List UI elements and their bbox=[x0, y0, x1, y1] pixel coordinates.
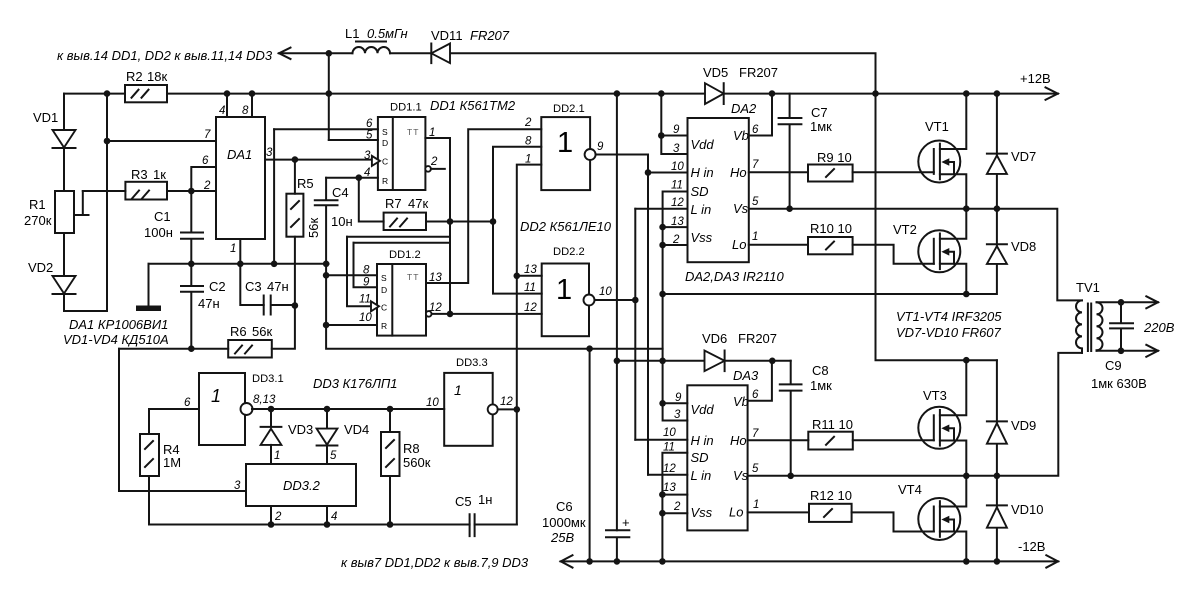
svg-text:к выв.14 DD1, DD2 к выв.11,14: к выв.14 DD1, DD2 к выв.11,14 DD3 bbox=[57, 48, 273, 63]
svg-text:VT1-VT4 IRF3205: VT1-VT4 IRF3205 bbox=[896, 309, 1002, 324]
svg-text:7: 7 bbox=[204, 129, 211, 141]
svg-text:C5: C5 bbox=[455, 494, 472, 509]
svg-text:DA2,DA3 IR2110: DA2,DA3 IR2110 bbox=[685, 269, 785, 284]
svg-text:C7: C7 bbox=[811, 105, 828, 120]
svg-text:12: 12 bbox=[671, 197, 684, 209]
svg-text:11: 11 bbox=[663, 442, 675, 454]
svg-text:9: 9 bbox=[597, 141, 604, 153]
svg-text:DD1.1: DD1.1 bbox=[390, 102, 422, 114]
svg-text:C6: C6 bbox=[556, 499, 573, 514]
svg-text:6: 6 bbox=[752, 389, 759, 401]
svg-text:3: 3 bbox=[364, 150, 371, 162]
svg-text:1000мк: 1000мк bbox=[542, 515, 586, 530]
svg-text:1: 1 bbox=[525, 154, 531, 166]
svg-text:D: D bbox=[381, 285, 387, 295]
svg-text:C2: C2 bbox=[209, 279, 226, 294]
svg-text:1: 1 bbox=[752, 231, 758, 243]
svg-text:DA2: DA2 bbox=[731, 101, 757, 116]
svg-text:к выв7 DD1,DD2 к выв.7,9 DD3: к выв7 DD1,DD2 к выв.7,9 DD3 bbox=[341, 555, 529, 570]
svg-text:1: 1 bbox=[454, 382, 462, 398]
svg-text:R9 10: R9 10 bbox=[817, 150, 852, 165]
svg-text:56к: 56к bbox=[252, 324, 272, 339]
svg-text:560к: 560к bbox=[403, 455, 431, 470]
svg-text:SD: SD bbox=[691, 450, 709, 465]
svg-text:+12В: +12В bbox=[1020, 71, 1051, 86]
svg-text:R7: R7 bbox=[385, 196, 402, 211]
svg-text:6: 6 bbox=[202, 155, 209, 167]
svg-text:R11 10: R11 10 bbox=[812, 417, 853, 432]
svg-text:12: 12 bbox=[500, 396, 513, 408]
svg-text:DD2.1: DD2.1 bbox=[553, 103, 585, 115]
svg-text:D: D bbox=[382, 138, 388, 148]
svg-text:5: 5 bbox=[752, 196, 759, 208]
svg-text:+: + bbox=[622, 515, 630, 530]
svg-text:1: 1 bbox=[274, 450, 280, 462]
svg-text:5: 5 bbox=[330, 450, 337, 462]
svg-text:L in: L in bbox=[691, 468, 712, 483]
svg-text:R10 10: R10 10 bbox=[810, 221, 852, 236]
svg-text:DD2.2: DD2.2 bbox=[553, 246, 585, 258]
svg-text:10: 10 bbox=[599, 286, 612, 298]
svg-text:8: 8 bbox=[242, 105, 249, 117]
svg-text:VD2: VD2 bbox=[28, 260, 53, 275]
svg-text:11: 11 bbox=[671, 180, 683, 192]
svg-text:7: 7 bbox=[752, 428, 759, 440]
svg-text:1М: 1М bbox=[163, 455, 181, 470]
svg-text:H in: H in bbox=[691, 433, 714, 448]
svg-text:11: 11 bbox=[359, 294, 371, 306]
svg-text:1: 1 bbox=[557, 127, 573, 159]
svg-text:C8: C8 bbox=[812, 363, 829, 378]
svg-text:3: 3 bbox=[673, 143, 680, 155]
svg-text:DD3 К176ЛП1: DD3 К176ЛП1 bbox=[313, 376, 398, 391]
svg-text:47к: 47к bbox=[408, 196, 428, 211]
svg-text:18к: 18к bbox=[147, 69, 167, 84]
svg-text:3: 3 bbox=[674, 409, 681, 421]
svg-text:13: 13 bbox=[429, 272, 442, 284]
svg-text:270к: 270к bbox=[24, 213, 52, 228]
svg-text:2: 2 bbox=[274, 511, 282, 523]
svg-text:FR207: FR207 bbox=[738, 331, 777, 346]
svg-text:1мк: 1мк bbox=[810, 119, 832, 134]
svg-text:C3: C3 bbox=[245, 279, 262, 294]
svg-text:DA1: DA1 bbox=[227, 147, 252, 162]
svg-text:2: 2 bbox=[203, 180, 211, 192]
svg-text:10: 10 bbox=[663, 427, 676, 439]
svg-text:VD10: VD10 bbox=[1011, 502, 1044, 517]
svg-text:47н: 47н bbox=[198, 296, 220, 311]
svg-text:L1: L1 bbox=[345, 26, 359, 41]
svg-text:Vs: Vs bbox=[733, 468, 749, 483]
svg-text:DD1 К561ТМ2: DD1 К561ТМ2 bbox=[430, 98, 516, 113]
svg-text:7: 7 bbox=[752, 159, 759, 171]
svg-text:R1: R1 bbox=[29, 197, 46, 212]
svg-text:1: 1 bbox=[753, 499, 759, 511]
svg-text:ТТ: ТТ bbox=[407, 272, 419, 282]
svg-text:DD1.2: DD1.2 bbox=[389, 249, 421, 261]
svg-text:Vs: Vs bbox=[733, 201, 749, 216]
svg-text:9: 9 bbox=[675, 392, 682, 404]
svg-text:TV1: TV1 bbox=[1076, 280, 1100, 295]
svg-text:12: 12 bbox=[524, 302, 537, 314]
svg-text:VD9: VD9 bbox=[1011, 418, 1036, 433]
svg-text:6: 6 bbox=[366, 118, 373, 130]
svg-text:10: 10 bbox=[359, 312, 372, 324]
svg-text:C: C bbox=[382, 157, 388, 167]
svg-text:1: 1 bbox=[211, 386, 221, 406]
svg-text:13: 13 bbox=[524, 264, 537, 276]
svg-text:-12В: -12В bbox=[1018, 539, 1045, 554]
svg-text:10: 10 bbox=[671, 161, 684, 173]
svg-text:C4: C4 bbox=[332, 185, 349, 200]
svg-text:R: R bbox=[382, 176, 388, 186]
svg-text:10: 10 bbox=[426, 397, 439, 409]
svg-text:Vss: Vss bbox=[691, 230, 713, 245]
svg-text:56к: 56к bbox=[306, 218, 321, 238]
svg-text:VT1: VT1 bbox=[925, 119, 949, 134]
svg-text:3: 3 bbox=[234, 480, 241, 492]
svg-text:R2: R2 bbox=[126, 69, 143, 84]
svg-text:VD5: VD5 bbox=[703, 65, 728, 80]
svg-text:DA1 КР1006ВИ1: DA1 КР1006ВИ1 bbox=[69, 317, 168, 332]
svg-text:R5: R5 bbox=[297, 176, 314, 191]
svg-text:1мк: 1мк bbox=[810, 378, 832, 393]
svg-text:VT3: VT3 bbox=[923, 388, 947, 403]
svg-text:FR207: FR207 bbox=[739, 65, 778, 80]
svg-text:R12 10: R12 10 bbox=[810, 488, 852, 503]
svg-text:12: 12 bbox=[429, 302, 442, 314]
svg-text:VD3: VD3 bbox=[288, 422, 313, 437]
svg-text:8,13: 8,13 bbox=[253, 394, 276, 406]
svg-text:2: 2 bbox=[673, 501, 681, 513]
svg-text:R8: R8 bbox=[403, 441, 420, 456]
svg-text:6: 6 bbox=[184, 397, 191, 409]
svg-text:Vss: Vss bbox=[691, 505, 713, 520]
svg-text:VD8: VD8 bbox=[1011, 239, 1036, 254]
svg-text:ТТ: ТТ bbox=[407, 127, 419, 137]
svg-text:VD11: VD11 bbox=[431, 28, 463, 43]
svg-text:Lo: Lo bbox=[732, 237, 746, 252]
svg-text:Vb: Vb bbox=[733, 128, 749, 143]
svg-text:3: 3 bbox=[266, 147, 273, 159]
svg-text:1н: 1н bbox=[478, 492, 492, 507]
svg-text:8: 8 bbox=[525, 136, 532, 148]
svg-text:47н: 47н bbox=[267, 279, 289, 294]
svg-text:1к: 1к bbox=[153, 167, 166, 182]
svg-text:C: C bbox=[381, 303, 387, 313]
svg-text:Vdd: Vdd bbox=[691, 402, 715, 417]
svg-text:R6: R6 bbox=[230, 324, 247, 339]
svg-text:VT2: VT2 bbox=[893, 222, 917, 237]
svg-text:C9: C9 bbox=[1105, 358, 1122, 373]
svg-text:9: 9 bbox=[673, 124, 680, 136]
svg-text:1: 1 bbox=[556, 274, 572, 306]
svg-text:1: 1 bbox=[429, 127, 435, 139]
svg-text:12: 12 bbox=[663, 463, 676, 475]
svg-text:Ho: Ho bbox=[730, 165, 747, 180]
svg-text:R: R bbox=[381, 321, 387, 331]
svg-text:DD3.1: DD3.1 bbox=[252, 373, 284, 385]
svg-text:2: 2 bbox=[430, 156, 438, 168]
svg-text:VD1: VD1 bbox=[33, 110, 58, 125]
svg-text:100н: 100н bbox=[144, 225, 173, 240]
svg-text:VD7: VD7 bbox=[1011, 149, 1036, 164]
svg-text:VD1-VD4 КД510А: VD1-VD4 КД510А bbox=[63, 332, 169, 347]
svg-text:FR207: FR207 bbox=[470, 28, 510, 43]
svg-text:H in: H in bbox=[691, 165, 714, 180]
svg-text:DD3.3: DD3.3 bbox=[456, 357, 488, 369]
svg-text:DD3.2: DD3.2 bbox=[283, 478, 321, 493]
svg-text:C1: C1 bbox=[154, 209, 171, 224]
svg-text:4: 4 bbox=[219, 105, 225, 117]
svg-text:1мк 630В: 1мк 630В bbox=[1091, 376, 1147, 391]
svg-text:L in: L in bbox=[691, 202, 712, 217]
svg-text:9: 9 bbox=[363, 277, 370, 289]
svg-text:VD6: VD6 bbox=[702, 331, 727, 346]
svg-text:DD2 К561ЛЕ10: DD2 К561ЛЕ10 bbox=[520, 219, 612, 234]
svg-text:Lo: Lo bbox=[729, 505, 743, 520]
svg-text:S: S bbox=[382, 127, 388, 137]
svg-text:R3: R3 bbox=[131, 167, 148, 182]
svg-text:13: 13 bbox=[663, 482, 676, 494]
svg-text:5: 5 bbox=[752, 463, 759, 475]
svg-text:Vb: Vb bbox=[733, 394, 749, 409]
svg-text:11: 11 bbox=[524, 282, 536, 294]
svg-text:25В: 25В bbox=[550, 530, 574, 545]
svg-text:VD7-VD10 FR607: VD7-VD10 FR607 bbox=[896, 325, 1002, 340]
svg-text:Vdd: Vdd bbox=[691, 137, 715, 152]
svg-text:220В: 220В bbox=[1143, 320, 1175, 335]
svg-text:0.5мГн: 0.5мГн bbox=[367, 26, 408, 41]
svg-text:2: 2 bbox=[524, 117, 532, 129]
svg-text:S: S bbox=[381, 273, 387, 283]
svg-text:Ho: Ho bbox=[730, 433, 747, 448]
svg-text:8: 8 bbox=[363, 265, 370, 277]
svg-text:1: 1 bbox=[230, 243, 236, 255]
svg-text:10н: 10н bbox=[331, 214, 353, 229]
svg-text:6: 6 bbox=[752, 124, 759, 136]
svg-text:VD4: VD4 bbox=[344, 422, 369, 437]
svg-text:4: 4 bbox=[331, 511, 337, 523]
svg-text:VT4: VT4 bbox=[898, 482, 922, 497]
svg-text:DA3: DA3 bbox=[733, 368, 759, 383]
svg-text:5: 5 bbox=[366, 130, 373, 142]
svg-text:SD: SD bbox=[691, 184, 709, 199]
